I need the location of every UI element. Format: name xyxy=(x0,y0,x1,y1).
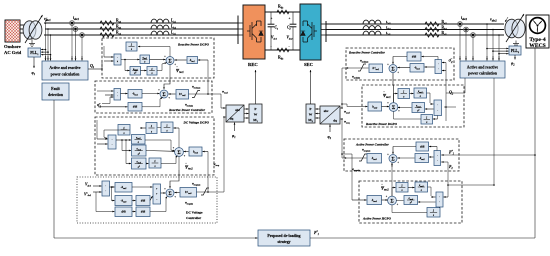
svg-text:s: s xyxy=(402,95,404,98)
svg-text:s: s xyxy=(150,130,152,133)
svg-text:·: · xyxy=(437,155,438,158)
svg-text:·: · xyxy=(117,91,118,94)
svg-text:s: s xyxy=(153,165,155,168)
svg-text:·: · xyxy=(117,95,118,98)
svg-text:REC: REC xyxy=(248,62,258,67)
svg-text:·: · xyxy=(437,104,438,107)
svg-text:s: s xyxy=(432,214,434,217)
svg-text:Fault: Fault xyxy=(51,87,60,91)
svg-text:s: s xyxy=(419,95,421,98)
svg-text:abc: abc xyxy=(324,109,329,113)
svg-text:dq: dq xyxy=(333,119,337,123)
svg-text:s: s xyxy=(137,141,139,144)
svg-text:W: W xyxy=(254,113,258,117)
svg-text:·: · xyxy=(439,196,440,199)
svg-text:·: · xyxy=(439,201,440,204)
svg-text:·: · xyxy=(437,109,438,112)
svg-text:d/dt: d/dt xyxy=(412,55,416,58)
svg-text:s: s xyxy=(130,48,132,51)
svg-text:Active Power Controller: Active Power Controller xyxy=(355,143,390,147)
svg-text:W: W xyxy=(309,113,313,117)
svg-text:strategy: strategy xyxy=(277,240,290,244)
svg-text:·: · xyxy=(105,190,106,193)
svg-text:-: - xyxy=(271,44,272,48)
svg-text:·: · xyxy=(438,68,439,71)
svg-text:power calculation: power calculation xyxy=(468,72,498,76)
svg-text:s: s xyxy=(165,129,167,132)
svg-text:s: s xyxy=(122,132,124,135)
svg-text:·: · xyxy=(437,160,438,163)
svg-text:·: · xyxy=(105,185,106,188)
svg-text:power calculation: power calculation xyxy=(51,73,81,77)
svg-text:Proposed de-loading: Proposed de-loading xyxy=(267,234,300,238)
svg-text:s: s xyxy=(420,189,422,192)
svg-text:s: s xyxy=(150,72,152,75)
svg-text:abc: abc xyxy=(235,108,240,112)
svg-text:·: · xyxy=(117,57,118,60)
svg-text:d/dt: d/dt xyxy=(141,199,145,202)
svg-text:s: s xyxy=(425,121,427,124)
svg-text:·: · xyxy=(112,139,113,142)
svg-text:DC Voltage DGPO: DC Voltage DGPO xyxy=(183,121,210,125)
svg-text:d/dt: d/dt xyxy=(133,106,137,109)
svg-text:WECS: WECS xyxy=(529,43,545,49)
svg-text:Reactive Power DGPO: Reactive Power DGPO xyxy=(366,122,398,126)
svg-text:·: · xyxy=(112,143,113,146)
svg-text:Reactive Power Controller: Reactive Power Controller xyxy=(169,108,206,112)
svg-text:d/dt: d/dt xyxy=(121,211,125,214)
svg-text:+: + xyxy=(271,17,273,21)
svg-text:-: - xyxy=(289,44,290,48)
svg-text:Controller: Controller xyxy=(186,216,202,220)
svg-text:s: s xyxy=(143,60,145,63)
svg-text:Active and reactive: Active and reactive xyxy=(467,66,498,70)
svg-text:s: s xyxy=(400,189,402,192)
svg-text:d/dt: d/dt xyxy=(141,211,145,214)
svg-text:-: - xyxy=(156,198,157,201)
svg-text:Onshore: Onshore xyxy=(4,44,21,49)
svg-text:DC Voltage: DC Voltage xyxy=(186,211,203,215)
svg-text:detection: detection xyxy=(48,93,64,97)
svg-text:Active Power HGPO: Active Power HGPO xyxy=(362,217,392,221)
svg-text:SEC: SEC xyxy=(304,62,313,67)
svg-text:Reactive Power DGPO: Reactive Power DGPO xyxy=(178,43,210,47)
svg-text:Active and reactive: Active and reactive xyxy=(49,66,80,70)
svg-text:Reactive Power Controller: Reactive Power Controller xyxy=(349,51,386,55)
svg-text:dq: dq xyxy=(230,117,234,121)
svg-text:d/dt: d/dt xyxy=(420,145,424,148)
svg-text:·: · xyxy=(438,63,439,66)
svg-text:+: + xyxy=(289,17,291,21)
svg-text:AC Grid: AC Grid xyxy=(4,50,22,55)
